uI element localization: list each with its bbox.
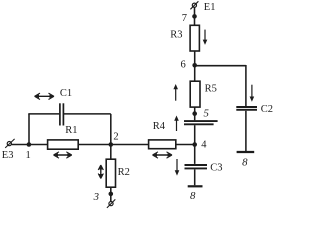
arrow left of R2	[98, 165, 103, 179]
wire E3 to R1	[12, 144, 48, 146]
wire R5 to node 5	[194, 107, 196, 120]
wire node 6 branch down to C2	[245, 65, 247, 106]
ground 8 below C2	[237, 151, 255, 153]
svg-text:E3: E3	[2, 150, 14, 161]
node 4	[192, 142, 197, 147]
node 5	[192, 111, 197, 116]
svg-text:3: 3	[93, 191, 100, 203]
svg-text:8: 8	[190, 190, 196, 202]
arrow above C2	[250, 85, 255, 102]
resistor R5	[190, 81, 200, 107]
wire node2 down to R2	[110, 145, 112, 160]
arrow above C1	[35, 93, 55, 99]
svg-text:8: 8	[242, 156, 248, 168]
terminal E1	[190, 1, 198, 9]
resistor R1	[48, 140, 79, 149]
svg-text:R3: R3	[170, 30, 182, 41]
ground 8 below C3	[188, 185, 203, 187]
node 2	[109, 142, 114, 147]
capacitor C3	[185, 165, 208, 168]
svg-text:E1: E1	[204, 2, 216, 13]
wire C1 branch top right	[64, 113, 111, 115]
wire capacitor to node 4	[194, 125, 196, 164]
wire C1 branch down to node 2	[110, 114, 112, 145]
wire C2 to ground	[245, 111, 247, 151]
wire C1 branch top left	[28, 113, 59, 115]
arrow below R4	[153, 152, 173, 158]
arrow left of C3	[175, 159, 180, 176]
arrow below R1	[54, 152, 72, 158]
arrow left of R5	[173, 84, 178, 101]
wire R4 to node 4	[176, 144, 196, 146]
arrow left of capacitor 5-4	[174, 116, 179, 132]
svg-text:C1: C1	[60, 88, 72, 99]
resistor R2	[106, 159, 115, 187]
node 6	[192, 63, 197, 68]
svg-text:2: 2	[113, 132, 118, 143]
capacitor C2	[236, 107, 257, 110]
resistor R3	[190, 25, 199, 51]
svg-text:R1: R1	[65, 125, 77, 136]
node 3	[109, 192, 114, 197]
resistor R4	[149, 140, 176, 149]
node 7	[192, 14, 197, 19]
svg-text:4: 4	[201, 139, 207, 150]
wire node1 up to C1 branch	[28, 114, 30, 145]
svg-text:R4: R4	[153, 121, 166, 132]
capacitor between 5 and 4	[184, 121, 218, 124]
capacitor C1	[60, 103, 64, 125]
svg-text:C3: C3	[210, 162, 222, 173]
node 1	[27, 142, 32, 147]
wire R1 to R4	[78, 144, 148, 146]
terminal at node 3	[107, 199, 115, 208]
wire R2 to node 3	[110, 187, 112, 201]
arrow right of R3	[203, 30, 208, 45]
svg-text:R5: R5	[205, 83, 217, 94]
svg-text:5: 5	[204, 107, 210, 119]
svg-text:R2: R2	[118, 167, 130, 178]
svg-text:7: 7	[182, 13, 187, 24]
terminal E3	[5, 139, 14, 148]
svg-text:C2: C2	[261, 104, 273, 115]
wire node 6 to C2 branch	[195, 65, 246, 67]
wire C3 to ground	[194, 170, 196, 186]
wire R3 to R5	[194, 51, 196, 81]
svg-text:1: 1	[26, 150, 31, 161]
wire E1 to R3	[194, 7, 196, 25]
svg-text:6: 6	[181, 59, 186, 70]
